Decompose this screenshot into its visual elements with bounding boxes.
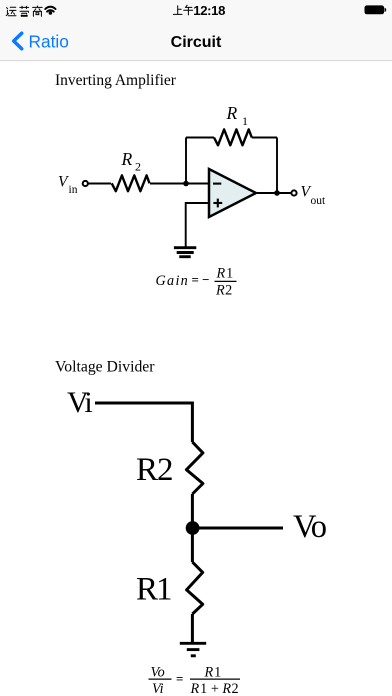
carrier text 运营商 (glyph approximations) bbox=[6, 6, 42, 16]
wire: feedback left vertical bbox=[185, 138, 187, 184]
divider formula fraction bars bbox=[149, 678, 172, 680]
nav bar hairline bbox=[0, 60, 392, 62]
status+nav bar background bbox=[0, 0, 392, 61]
node: divider output junction bbox=[186, 521, 200, 535]
resistor R2 (vertical zigzag) bbox=[186, 442, 203, 494]
svg-text:Gain: Gain bbox=[156, 273, 190, 289]
node: output junction bbox=[274, 190, 280, 196]
wire: terminal to R2 bbox=[88, 183, 111, 185]
svg-text:R1: R1 bbox=[136, 572, 171, 608]
output terminal circle Vout bbox=[291, 190, 296, 195]
wire: R2 to inverting input node bbox=[150, 183, 209, 185]
input terminal circle Vin bbox=[83, 181, 88, 186]
op-amp U1 bbox=[209, 169, 256, 217]
svg-text:V: V bbox=[58, 174, 69, 191]
ground symbol (divider) bbox=[180, 643, 206, 656]
svg-text:1: 1 bbox=[242, 114, 248, 128]
gain formula fraction bar bbox=[215, 280, 237, 282]
svg-text:Vi: Vi bbox=[152, 681, 164, 696]
svg-text:Ratio: Ratio bbox=[29, 32, 69, 52]
svg-text:R1: R1 bbox=[216, 266, 234, 282]
svg-text:Vi: Vi bbox=[67, 386, 92, 419]
battery icon bbox=[365, 5, 385, 14]
svg-text:Voltage Divider: Voltage Divider bbox=[55, 359, 155, 376]
wire: noninverting input to ground bbox=[186, 203, 209, 247]
resistor R1 (vertical zigzag) bbox=[187, 562, 203, 614]
op-amp plus sign bbox=[213, 199, 222, 208]
resistor R2 (zigzag) bbox=[112, 175, 150, 191]
back chevron bbox=[14, 33, 22, 49]
wire: R1 to ground bbox=[191, 614, 194, 643]
wire: feedback top right segment bbox=[252, 137, 277, 139]
wire: op-amp output to terminal bbox=[256, 192, 292, 194]
ground symbol (op-amp) bbox=[174, 248, 196, 257]
svg-text:=: = bbox=[176, 671, 183, 686]
svg-text:2: 2 bbox=[135, 160, 141, 174]
op-amp minus sign bbox=[213, 183, 221, 185]
wire: feedback top left segment bbox=[186, 137, 214, 139]
wire: feedback right vertical to output node bbox=[276, 138, 278, 194]
time 上午12:18 bbox=[173, 5, 192, 15]
wire: R2 to node bbox=[191, 494, 194, 527]
svg-text:R2: R2 bbox=[215, 283, 232, 299]
svg-text:R: R bbox=[226, 103, 238, 123]
svg-text:R1 + R2: R1 + R2 bbox=[190, 681, 239, 696]
svg-text:12:18: 12:18 bbox=[193, 3, 225, 18]
wifi icon bbox=[45, 7, 55, 12]
svg-text:= −: = − bbox=[192, 272, 210, 287]
wire: node down to R1 bbox=[191, 527, 194, 562]
svg-text:in: in bbox=[69, 184, 78, 196]
svg-text:Vo: Vo bbox=[151, 664, 165, 680]
wire: node to Vo bbox=[192, 527, 283, 530]
resistor R1 (zigzag) bbox=[214, 129, 252, 145]
node: inverting input junction bbox=[183, 181, 189, 187]
wire: Vi horizontal to corner, down to R2 bbox=[95, 403, 192, 442]
svg-text:R1: R1 bbox=[204, 664, 222, 680]
svg-text:out: out bbox=[311, 195, 327, 207]
svg-text:Inverting Amplifier: Inverting Amplifier bbox=[55, 72, 177, 89]
svg-text:R: R bbox=[121, 149, 133, 169]
svg-text:R2: R2 bbox=[136, 452, 173, 488]
gain formula bbox=[156, 266, 234, 299]
svg-text:Circuit: Circuit bbox=[171, 34, 222, 51]
svg-text:Vo: Vo bbox=[293, 509, 327, 545]
divider formula bbox=[151, 664, 239, 696]
